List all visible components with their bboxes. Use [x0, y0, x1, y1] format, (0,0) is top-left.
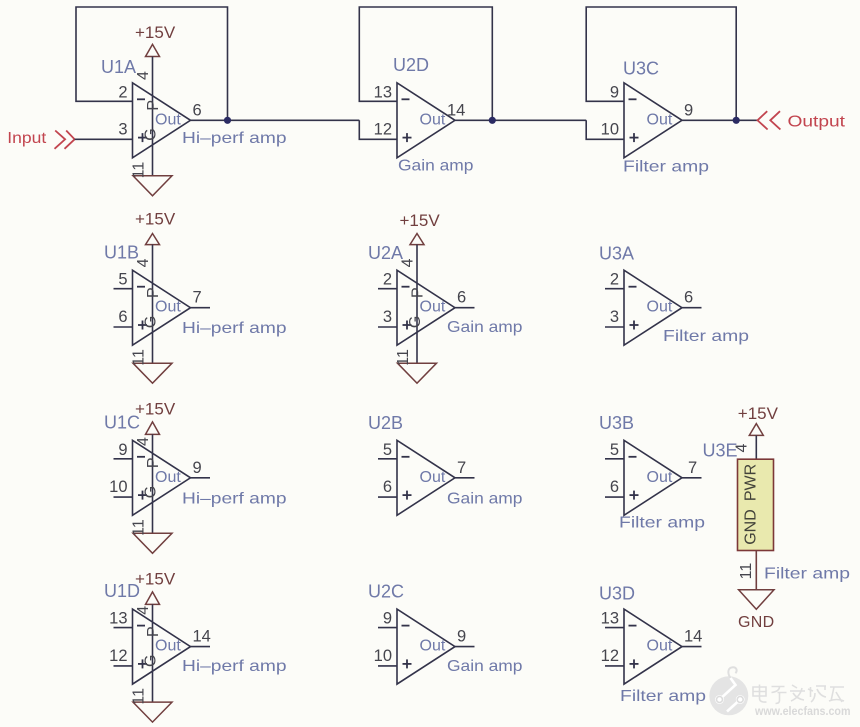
ground symbol of U2A	[395, 349, 437, 383]
svg-text:6: 6	[610, 478, 619, 496]
op-amp U3B	[605, 440, 702, 515]
svg-text:U3C: U3C	[623, 59, 659, 79]
svg-text:5: 5	[118, 271, 127, 289]
junction node at U3C output	[733, 117, 740, 124]
svg-text:11: 11	[131, 162, 148, 179]
svg-text:9: 9	[118, 441, 127, 459]
svg-text:PWR: PWR	[743, 464, 760, 501]
feedback wire loop U2D output to pin 13	[359, 7, 492, 120]
svg-text:11: 11	[395, 349, 412, 366]
svg-text:U3A: U3A	[599, 244, 634, 264]
svg-text:U2B: U2B	[368, 413, 403, 433]
svg-text:13: 13	[109, 610, 127, 628]
svg-text:6: 6	[457, 289, 466, 307]
svg-text:Out: Out	[420, 111, 446, 128]
svg-text:U3B: U3B	[599, 413, 634, 433]
output port chevrons	[758, 111, 781, 129]
svg-text:Gain amp: Gain amp	[447, 491, 523, 508]
svg-text:6: 6	[193, 101, 202, 119]
op-amp U1B	[114, 270, 211, 345]
watermark logo circle	[709, 667, 748, 715]
svg-text:3: 3	[610, 308, 619, 326]
ground symbol of U1D	[131, 688, 173, 722]
svg-text:U1B: U1B	[104, 243, 139, 263]
svg-text:Out: Out	[647, 469, 673, 486]
svg-text:12: 12	[109, 647, 127, 665]
svg-text:7: 7	[457, 459, 466, 477]
op-amp U2C	[374, 609, 475, 684]
svg-text:5: 5	[383, 441, 392, 459]
svg-text:Out: Out	[420, 299, 446, 316]
+15V power net of U1D	[135, 570, 176, 703]
svg-text:11: 11	[131, 349, 148, 366]
wire Input to U1A pin 3	[75, 138, 133, 140]
svg-text:4: 4	[734, 443, 751, 452]
op-amp U2D	[374, 83, 466, 158]
svg-text:U2D: U2D	[393, 55, 429, 75]
svg-text:Input: Input	[7, 130, 47, 147]
svg-text:2: 2	[118, 83, 127, 101]
svg-text:P: P	[145, 287, 162, 298]
svg-text:P: P	[145, 457, 162, 468]
svg-text:Filter amp: Filter amp	[620, 688, 706, 705]
svg-text:10: 10	[374, 647, 392, 665]
svg-text:7: 7	[193, 289, 202, 307]
svg-text:U1C: U1C	[104, 413, 140, 433]
svg-text:9: 9	[383, 610, 392, 628]
svg-text:G: G	[143, 128, 160, 140]
svg-text:11: 11	[738, 563, 755, 580]
+15V power net of U1B	[135, 210, 176, 364]
svg-text:Hi–perf amp: Hi–perf amp	[182, 130, 287, 147]
svg-text:9: 9	[457, 628, 466, 646]
ground symbol of U3E	[739, 590, 774, 610]
input port chevrons	[55, 131, 75, 149]
junction node at U2D output	[489, 117, 496, 124]
svg-text:Out: Out	[155, 638, 181, 655]
svg-text:13: 13	[601, 610, 619, 628]
svg-text:Out: Out	[420, 638, 446, 655]
ground symbol of U1B	[131, 349, 173, 383]
svg-text:Filter amp: Filter amp	[623, 159, 709, 176]
svg-text:14: 14	[193, 628, 211, 646]
svg-text:6: 6	[684, 289, 693, 307]
svg-text:10: 10	[109, 478, 127, 496]
svg-text:Out: Out	[647, 299, 673, 316]
+15V power net of U1C	[135, 400, 176, 534]
svg-text:10: 10	[601, 121, 619, 139]
svg-text:12: 12	[374, 121, 392, 139]
svg-text:Out: Out	[647, 638, 673, 655]
svg-text:6: 6	[383, 478, 392, 496]
svg-text:3: 3	[383, 308, 392, 326]
svg-text:13: 13	[374, 83, 392, 101]
wire U3C output to Output port	[682, 119, 758, 121]
svg-text:Gain amp: Gain amp	[447, 319, 523, 336]
svg-text:U3E: U3E	[703, 441, 738, 461]
op-amp U2A	[378, 270, 475, 345]
svg-text:Out: Out	[155, 299, 181, 316]
op-amp U1D	[109, 609, 211, 684]
svg-text:4: 4	[135, 71, 152, 80]
svg-text:+15V: +15V	[135, 210, 176, 229]
svg-text:9: 9	[193, 459, 202, 477]
svg-text:11: 11	[131, 519, 148, 536]
svg-text:U2C: U2C	[368, 582, 404, 602]
watermark chinese text	[753, 685, 844, 704]
svg-text:Filter amp: Filter amp	[619, 515, 705, 532]
svg-text:U1A: U1A	[101, 57, 136, 77]
svg-text:P: P	[145, 100, 162, 111]
wire jog down into U3C pin 10	[586, 120, 624, 139]
+15V power net of U2A	[400, 211, 441, 363]
svg-text:9: 9	[610, 83, 619, 101]
svg-text:3: 3	[118, 121, 127, 139]
power element body U3E (PWR/GND box)	[738, 459, 774, 550]
op-amp U1A	[118, 83, 201, 158]
ground symbol of U1C	[131, 519, 173, 553]
svg-text:4: 4	[135, 437, 152, 446]
svg-text:2: 2	[610, 271, 619, 289]
svg-text:+15V: +15V	[135, 570, 176, 589]
svg-text:Hi–perf amp: Hi–perf amp	[182, 320, 287, 337]
svg-text:Out: Out	[420, 469, 446, 486]
svg-text:Output: Output	[788, 114, 846, 131]
svg-text:7: 7	[688, 459, 697, 477]
op-amp U3A	[605, 270, 702, 345]
wire U2D output to U3C	[455, 119, 586, 121]
svg-text:Out: Out	[155, 469, 181, 486]
svg-text:Filter amp: Filter amp	[764, 566, 850, 583]
svg-text:12: 12	[601, 647, 619, 665]
wire U1A output to U2D	[191, 119, 360, 121]
svg-text:Hi–perf amp: Hi–perf amp	[182, 491, 287, 508]
svg-text:2: 2	[383, 271, 392, 289]
svg-text:Filter amp: Filter amp	[663, 328, 749, 345]
svg-text:P: P	[145, 626, 162, 637]
svg-text:G: G	[143, 316, 160, 328]
op-amp U3C	[601, 83, 694, 158]
svg-text:11: 11	[131, 688, 148, 705]
op-amp U1C	[109, 440, 210, 515]
feedback wire loop U1A output to pin 2	[76, 7, 228, 120]
op-amp U3D	[601, 609, 703, 684]
svg-text:6: 6	[118, 308, 127, 326]
svg-text:U3D: U3D	[599, 584, 635, 604]
svg-text:Gain amp: Gain amp	[447, 658, 523, 675]
svg-text:Out: Out	[647, 111, 673, 128]
svg-text:14: 14	[447, 101, 465, 119]
svg-text:G: G	[143, 486, 160, 498]
svg-text:G: G	[143, 655, 160, 667]
svg-text:+15V: +15V	[135, 400, 176, 419]
wire U3E pin 11 to ground	[755, 551, 757, 590]
svg-text:www.elecfans.com: www.elecfans.com	[754, 704, 850, 718]
feedback wire loop U3C output to pin 9	[586, 7, 736, 120]
svg-text:P: P	[410, 287, 427, 298]
ground symbol of U1A	[131, 162, 173, 196]
svg-text:+15V: +15V	[400, 211, 441, 230]
svg-text:Hi–perf amp: Hi–perf amp	[182, 658, 287, 675]
svg-text:+15V: +15V	[738, 404, 779, 423]
svg-text:U2A: U2A	[368, 243, 403, 263]
+15V power net of U1A	[135, 23, 176, 176]
svg-text:Out: Out	[155, 111, 181, 128]
svg-text:GND: GND	[738, 614, 774, 631]
svg-text:G: G	[407, 316, 424, 328]
svg-text:5: 5	[610, 441, 619, 459]
svg-text:14: 14	[684, 628, 702, 646]
op-amp U2B	[378, 440, 475, 515]
svg-text:GND: GND	[743, 509, 760, 545]
junction node at U1A output	[224, 117, 231, 124]
+15V power net of U3E	[738, 404, 779, 459]
svg-text:9: 9	[684, 101, 693, 119]
svg-text:U1D: U1D	[104, 581, 140, 601]
svg-text:+15V: +15V	[135, 23, 176, 42]
svg-text:4: 4	[135, 606, 152, 615]
svg-text:Gain amp: Gain amp	[398, 158, 474, 175]
wire jog down into U2D pin 12	[359, 120, 397, 139]
